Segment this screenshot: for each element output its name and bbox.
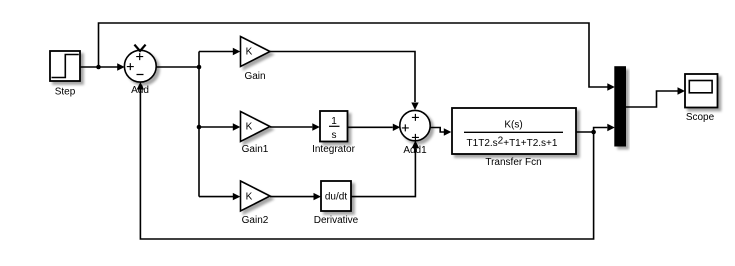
- svg-text:Gain2: Gain2: [242, 215, 269, 226]
- block Scope: [685, 74, 718, 108]
- wire Gain2 output to Derivative: [270, 193, 321, 200]
- junction dot branch to Gain1: [197, 125, 202, 130]
- wire bottom feedback to Add minus input: [137, 82, 594, 239]
- wire branch to Gain1: [199, 123, 240, 130]
- svg-text:Add: Add: [131, 85, 149, 96]
- svg-text:K: K: [246, 122, 253, 133]
- wire branch to Gain2: [199, 193, 240, 200]
- svg-text:Transfer Fcn: Transfer Fcn: [485, 157, 541, 168]
- svg-text:s: s: [332, 130, 337, 141]
- wire Add1 output to Transfer Fcn: [430, 128, 452, 136]
- block Derivative: [321, 181, 351, 211]
- wire Add output to branch line: [156, 66, 199, 68]
- gain block Gain1: [241, 112, 271, 142]
- gain block Gain2: [241, 181, 271, 211]
- wire Mux output to Scope: [626, 87, 686, 107]
- sum block Add: [124, 50, 156, 82]
- junction dot branch at Add output: [197, 65, 202, 70]
- block Step: [50, 51, 80, 81]
- sum block Add1: [400, 110, 430, 140]
- block Transfer Fcn: [452, 108, 576, 154]
- svg-text:1: 1: [331, 116, 337, 127]
- svg-text:Integrator: Integrator: [312, 144, 355, 155]
- svg-text:K: K: [246, 47, 253, 58]
- wire vertical branch line: [198, 52, 200, 197]
- wire branch to Gain: [199, 48, 240, 55]
- mux block: [615, 67, 626, 146]
- wire Transfer Fcn output: [576, 131, 594, 133]
- svg-text:Gain1: Gain1: [242, 144, 269, 155]
- svg-text:K(s): K(s): [504, 120, 522, 131]
- gain block Gain: [241, 37, 271, 67]
- svg-text:K: K: [246, 192, 253, 203]
- wire step output to Add: [80, 63, 125, 70]
- wire to Mux input 2: [594, 124, 615, 132]
- wire Gain1 output to Integrator: [270, 123, 320, 130]
- svg-text:Scope: Scope: [686, 112, 715, 123]
- block Integrator: [320, 111, 348, 142]
- svg-text:Add1: Add1: [403, 145, 427, 156]
- svg-text:Derivative: Derivative: [314, 215, 359, 226]
- svg-text:T1T2.s2+T1+T2.s+1: T1T2.s2+T1+T2.s+1: [467, 136, 558, 149]
- wire Derivative output to Add1 bottom: [351, 141, 419, 197]
- wire top feedback from step junction to Mux input 1: [99, 23, 615, 91]
- wire Integrator output to Add1: [348, 124, 401, 131]
- wire Gain output to Add1 top: [270, 52, 419, 111]
- unconnected port chevron on Add top: [134, 45, 145, 51]
- svg-text:Gain: Gain: [244, 71, 265, 82]
- junction dot at Transfer Fcn output: [591, 130, 596, 135]
- junction dot at step output: [96, 65, 101, 70]
- svg-text:Step: Step: [55, 87, 76, 98]
- svg-text:du/dt: du/dt: [325, 192, 347, 203]
